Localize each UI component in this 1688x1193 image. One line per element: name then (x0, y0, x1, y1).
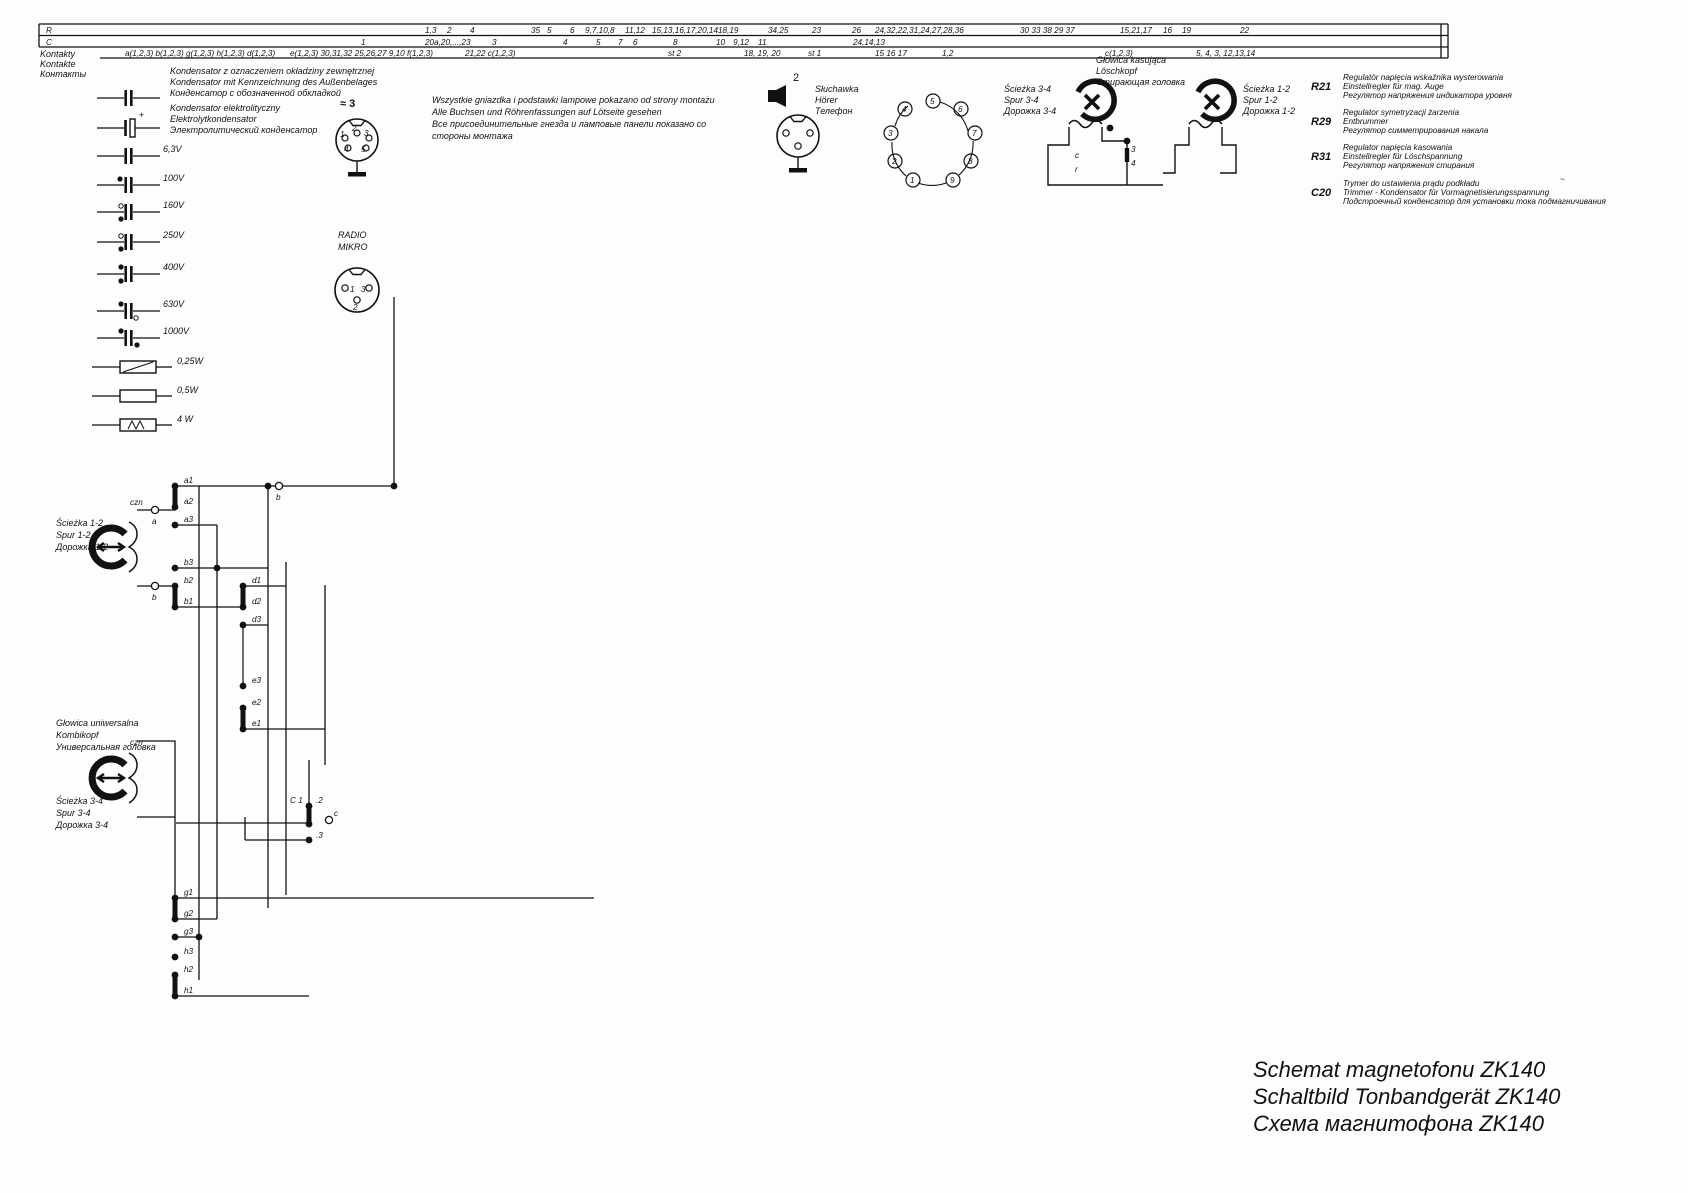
svg-text:250V: 250V (162, 230, 185, 240)
svg-text:1,3: 1,3 (425, 26, 437, 35)
svg-text:4: 4 (344, 145, 349, 154)
svg-text:15,21,17: 15,21,17 (1120, 26, 1152, 35)
svg-text:100V: 100V (163, 173, 185, 183)
svg-text:Kontakte: Kontakte (40, 59, 76, 69)
svg-text:R29: R29 (1311, 116, 1332, 128)
svg-text:24,14,13: 24,14,13 (852, 38, 885, 47)
svg-text:630V: 630V (163, 299, 185, 309)
svg-text:1: 1 (350, 285, 355, 294)
svg-text:24,32,22,31,24,27,28,36: 24,32,22,31,24,27,28,36 (874, 26, 964, 35)
svg-text:Löschkopf: Löschkopf (1096, 66, 1139, 76)
svg-text:Spur 3-4: Spur 3-4 (1004, 95, 1039, 105)
svg-text:4: 4 (563, 38, 568, 47)
svg-text:30 33 38 29 37: 30 33 38 29 37 (1020, 26, 1075, 35)
svg-text:4: 4 (470, 26, 475, 35)
svg-text:st 2: st 2 (668, 49, 682, 58)
svg-text:e2: e2 (252, 698, 262, 707)
svg-text:a1: a1 (184, 476, 193, 485)
svg-text:3: 3 (1131, 145, 1136, 154)
svg-text:Схема магнитофона ZK140: Схема магнитофона ZK140 (1253, 1111, 1545, 1136)
svg-text:9,7,10,8: 9,7,10,8 (585, 26, 615, 35)
svg-text:2: 2 (793, 72, 799, 84)
svg-text:Głowica kasująca: Głowica kasująca (1096, 55, 1166, 65)
svg-text:C: C (46, 38, 52, 47)
svg-text:e3: e3 (252, 676, 262, 685)
svg-text:0,5W: 0,5W (177, 385, 200, 395)
svg-text:5: 5 (596, 38, 601, 47)
svg-text:Entbrummer: Entbrummer (1343, 117, 1388, 126)
svg-text:Spur 1-2: Spur 1-2 (1243, 95, 1278, 105)
svg-text:23: 23 (811, 26, 822, 35)
svg-text:16: 16 (1163, 26, 1173, 35)
svg-text:Kontakty: Kontakty (40, 49, 76, 59)
svg-text:MIKRO: MIKRO (338, 242, 368, 252)
svg-text:Alle Buchsen und Röhrenfassung: Alle Buchsen und Röhrenfassungen auf Löt… (431, 107, 662, 117)
svg-text:a(1,2,3) b(1,2,3) g(1,2,3) h(1: a(1,2,3) b(1,2,3) g(1,2,3) h(1,2,3) d(1,… (125, 49, 275, 58)
svg-text:1000V: 1000V (163, 326, 190, 336)
svg-text:C 1: C 1 (290, 796, 303, 805)
svg-text:R31: R31 (1311, 151, 1331, 163)
svg-text:2: 2 (446, 26, 452, 35)
svg-text:+: + (139, 110, 144, 120)
svg-text:2: 2 (352, 303, 358, 312)
svg-text:b: b (152, 593, 157, 602)
svg-text:Стирающая головка: Стирающая головка (1096, 77, 1185, 87)
svg-text:Дорожка 1-2: Дорожка 1-2 (1242, 106, 1295, 116)
svg-text:b2: b2 (184, 576, 194, 585)
svg-text:19: 19 (1182, 26, 1192, 35)
svg-text:Elektrolytkondensator: Elektrolytkondensator (170, 114, 258, 124)
svg-text:Дорожка 1-2: Дорожка 1-2 (55, 542, 108, 552)
svg-text:r: r (1075, 165, 1078, 174)
svg-text:5: 5 (361, 145, 366, 154)
svg-text:Все присоединительные гнезда и: Все присоединительные гнезда и ламповые … (432, 119, 706, 129)
svg-text:Конденсатор с обозначенной обк: Конденсатор с обозначенной обкладкой (170, 88, 341, 98)
svg-text:3: 3 (361, 285, 366, 294)
svg-text:czn: czn (130, 498, 143, 507)
svg-text:Телефон: Телефон (815, 106, 853, 116)
svg-text:8: 8 (968, 157, 973, 166)
svg-text:Регулятор напряжения индикатор: Регулятор напряжения индикатора уровня (1343, 91, 1512, 100)
svg-text:9: 9 (950, 176, 955, 185)
svg-text:22: 22 (1239, 26, 1250, 35)
svg-text:b: b (276, 493, 281, 502)
svg-text:10: 10 (716, 38, 726, 47)
svg-text:h2: h2 (184, 965, 194, 974)
svg-text:RADIO: RADIO (338, 230, 367, 240)
svg-text:5, 4, 3, 12,13,14: 5, 4, 3, 12,13,14 (1196, 49, 1256, 58)
svg-text:160V: 160V (163, 200, 185, 210)
svg-text:Einstellregler für Löschspannu: Einstellregler für Löschspannung (1343, 152, 1463, 161)
svg-text:R21: R21 (1311, 81, 1331, 93)
svg-text:.2: .2 (316, 796, 323, 805)
svg-text:g3: g3 (184, 927, 194, 936)
svg-text:Ścieżka 3-4: Ścieżka 3-4 (1004, 83, 1051, 94)
svg-text:b3: b3 (184, 558, 194, 567)
svg-text:Подстроечный конденсатор для у: Подстроечный конденсатор для установки т… (1343, 197, 1607, 206)
svg-text:a3: a3 (184, 515, 194, 524)
svg-text:2: 2 (351, 124, 357, 133)
svg-text:4 W: 4 W (177, 414, 195, 424)
svg-text:e(1,2,3) 30,31,32 25,26,27 9,: e(1,2,3) 30,31,32 25,26,27 9,10 f(1,2,3) (290, 49, 433, 58)
svg-text:C20: C20 (1311, 187, 1332, 199)
svg-text:5: 5 (547, 26, 552, 35)
svg-text:1: 1 (340, 130, 345, 139)
svg-text:Trymer do ustawienia prądu pod: Trymer do ustawienia prądu podkładu (1343, 179, 1480, 188)
svg-text:Einstellregler für mag. Auge: Einstellregler für mag. Auge (1343, 82, 1444, 91)
svg-text:Spur 3-4: Spur 3-4 (56, 808, 91, 818)
svg-text:11,12: 11,12 (625, 26, 645, 35)
svg-text:Schemat magnetofonu ZK140: Schemat magnetofonu ZK140 (1253, 1057, 1546, 1082)
svg-text:g1: g1 (184, 888, 193, 897)
svg-text:c: c (334, 809, 338, 818)
svg-text:20a,20,...,23: 20a,20,...,23 (424, 38, 471, 47)
svg-text:Spur 1-2: Spur 1-2 (56, 530, 91, 540)
svg-text:стороны монтажа: стороны монтажа (432, 131, 513, 141)
svg-text:4: 4 (902, 105, 907, 114)
svg-text:d3: d3 (252, 615, 262, 624)
svg-text:4: 4 (1131, 159, 1136, 168)
svg-text:1: 1 (361, 38, 366, 47)
svg-text:Ścieżka 1-2: Ścieżka 1-2 (56, 517, 103, 528)
svg-text:8: 8 (673, 38, 678, 47)
svg-text:Słuchawka: Słuchawka (815, 84, 859, 94)
svg-text:7: 7 (618, 38, 623, 47)
svg-text:Regulator symetryzacji żarzeni: Regulator symetryzacji żarzenia (1343, 108, 1459, 117)
svg-text:Kondensator mit Kennzeichnung: Kondensator mit Kennzeichnung des Außenb… (170, 77, 378, 87)
svg-text:15,13,16,17,20,14: 15,13,16,17,20,14 (652, 26, 718, 35)
svg-text:21,22 c(1,2,3): 21,22 c(1,2,3) (464, 49, 516, 58)
svg-text:2: 2 (891, 157, 897, 166)
svg-text:3: 3 (492, 38, 497, 47)
svg-text:d1: d1 (252, 576, 261, 585)
svg-text:11: 11 (758, 38, 767, 47)
svg-text:0,25W: 0,25W (177, 356, 205, 366)
svg-text:a: a (152, 517, 157, 526)
svg-text:3: 3 (888, 129, 893, 138)
svg-text:Ścieżka 3-4: Ścieżka 3-4 (56, 795, 103, 806)
svg-text:d2: d2 (252, 597, 262, 606)
svg-text:Ścieżka 1-2: Ścieżka 1-2 (1243, 83, 1290, 94)
svg-text:.3: .3 (316, 831, 323, 840)
svg-text:Kondensator elektrolityczny: Kondensator elektrolityczny (170, 103, 281, 113)
svg-text:h1: h1 (184, 986, 193, 995)
svg-text:Регулятор симметрирования нака: Регулятор симметрирования накала (1343, 126, 1489, 135)
svg-text:g2: g2 (184, 909, 194, 918)
svg-text:Kondensator z oznaczeniem okła: Kondensator z oznaczeniem okładziny zewn… (170, 66, 375, 76)
svg-text:e1: e1 (252, 719, 261, 728)
svg-text:Регулятор напряжения стирания: Регулятор напряжения стирания (1343, 161, 1475, 170)
svg-text:Дорожка 3-4: Дорожка 3-4 (1003, 106, 1056, 116)
svg-text:6: 6 (633, 38, 638, 47)
svg-text:czn: czn (130, 738, 143, 747)
svg-text:c: c (1075, 151, 1079, 160)
svg-text:6: 6 (570, 26, 575, 35)
svg-text:6: 6 (958, 105, 963, 114)
svg-text:Głowica uniwersalna: Głowica uniwersalna (56, 718, 139, 728)
svg-text:st 1: st 1 (808, 49, 821, 58)
svg-text:7: 7 (972, 129, 977, 138)
svg-text:~: ~ (1560, 175, 1565, 184)
svg-text:15 16 17: 15 16 17 (875, 49, 907, 58)
svg-text:R: R (46, 26, 52, 35)
svg-text:Trimmer - Kondensator für Vorm: Trimmer - Kondensator für Vormagnetisier… (1343, 188, 1550, 197)
svg-text:Regulatör napięcia wskaźnika w: Regulatör napięcia wskaźnika wysterowani… (1343, 73, 1504, 82)
svg-text:18, 19, 20: 18, 19, 20 (744, 49, 781, 58)
svg-text:Контакты: Контакты (40, 69, 87, 79)
svg-text:Дорожка 3-4: Дорожка 3-4 (55, 820, 108, 830)
svg-text:a2: a2 (184, 497, 194, 506)
svg-text:b1: b1 (184, 597, 193, 606)
svg-text:5: 5 (930, 97, 935, 106)
svg-text:≈ 3: ≈ 3 (340, 98, 355, 110)
svg-text:1: 1 (910, 176, 915, 185)
svg-text:Электролитический конденсатор: Электролитический конденсатор (170, 125, 317, 135)
svg-text:3: 3 (364, 129, 369, 138)
svg-text:6,3V: 6,3V (163, 144, 183, 154)
svg-text:Wszystkie gniazdka i podstawki: Wszystkie gniazdka i podstawki lampowe p… (432, 95, 715, 105)
svg-text:h3: h3 (184, 947, 194, 956)
svg-text:34,25: 34,25 (768, 26, 789, 35)
svg-text:Regulator napięcia kasowania: Regulator napięcia kasowania (1343, 143, 1453, 152)
svg-text:18,19: 18,19 (718, 26, 739, 35)
svg-text:400V: 400V (163, 262, 185, 272)
svg-text:Hörer: Hörer (815, 95, 839, 105)
svg-text:35: 35 (531, 26, 541, 35)
svg-text:1,2: 1,2 (942, 49, 954, 58)
svg-text:Kombikopf: Kombikopf (56, 730, 100, 740)
svg-text:9,12: 9,12 (733, 38, 749, 47)
svg-text:26: 26 (851, 26, 862, 35)
svg-text:Schaltbild Tonbandgerät ZK140: Schaltbild Tonbandgerät ZK140 (1253, 1084, 1561, 1109)
